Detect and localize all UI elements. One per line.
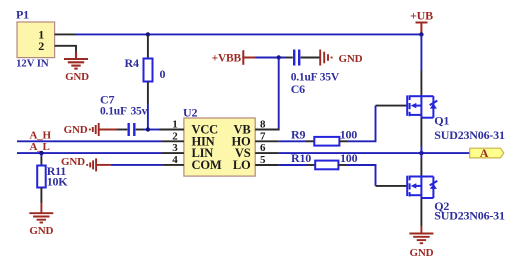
power port +VBB <box>243 50 255 65</box>
power port GND (right of C6) <box>320 50 331 66</box>
ground (below P1) <box>64 52 88 69</box>
wire Q1 source to output node <box>420 118 422 147</box>
svg-text:GND: GND <box>29 225 53 237</box>
svg-text:6: 6 <box>260 142 266 154</box>
node row1 <box>146 127 150 131</box>
svg-text:SUD23N06-31: SUD23N06-31 <box>434 128 505 142</box>
pin 4 <box>162 164 184 166</box>
capacitor C6 <box>286 57 293 59</box>
capacitor C7 <box>117 129 127 131</box>
svg-text:1: 1 <box>172 119 177 131</box>
transistor Q1 <box>407 95 433 118</box>
svg-text:10K: 10K <box>47 175 69 189</box>
wire Q2 source to ground <box>420 198 422 226</box>
svg-text:A_H: A_H <box>30 129 52 141</box>
svg-text:+UB: +UB <box>410 8 433 22</box>
connector P1 <box>16 8 55 70</box>
port A <box>470 148 504 158</box>
resistor R9 <box>279 140 306 142</box>
svg-text:GND: GND <box>64 124 88 136</box>
svg-text:12V IN: 12V IN <box>16 58 49 70</box>
svg-text:2: 2 <box>172 130 178 142</box>
power port GND (row1 left) <box>90 123 99 136</box>
node VBB/C6 <box>277 55 281 59</box>
svg-text:7: 7 <box>260 130 266 142</box>
pin 5 <box>255 164 279 166</box>
svg-text:100: 100 <box>340 151 358 165</box>
svg-text:A_L: A_L <box>30 141 50 153</box>
pin 1 <box>160 129 184 131</box>
svg-text:8: 8 <box>260 119 266 131</box>
pin 7 <box>255 140 279 142</box>
svg-text:R10: R10 <box>291 151 311 165</box>
svg-text:R4: R4 <box>125 56 139 70</box>
P1 pin 2 stub <box>55 46 76 52</box>
wire C7 to pin1 <box>144 129 160 131</box>
power port +UB <box>416 23 428 35</box>
svg-text:U2: U2 <box>183 105 197 119</box>
wire A_H <box>17 140 162 142</box>
svg-text:R9: R9 <box>291 127 305 141</box>
svg-text:C7: C7 <box>100 93 114 107</box>
svg-text:3: 3 <box>172 142 178 154</box>
power port GND (row4 left) <box>87 158 96 171</box>
svg-text:Q1: Q1 <box>434 114 449 128</box>
svg-text:A: A <box>480 146 489 160</box>
svg-text:P1: P1 <box>16 8 29 22</box>
svg-text:35v: 35v <box>131 106 148 118</box>
svg-text:5: 5 <box>260 154 266 166</box>
wire GND to C7 <box>99 129 117 131</box>
svg-text:2: 2 <box>38 39 44 53</box>
wire output node to Q2 drain <box>420 153 422 158</box>
node rail/R4 <box>146 32 150 36</box>
svg-text:0.1uF: 0.1uF <box>100 106 127 118</box>
svg-text:COM: COM <box>192 158 222 172</box>
node output junction <box>419 151 423 155</box>
svg-text:GND: GND <box>409 247 433 259</box>
wire VS row to output <box>279 152 470 154</box>
svg-text:SUD23N06-31: SUD23N06-31 <box>434 209 505 223</box>
wire R9 to Q1 gate <box>348 106 376 142</box>
P1 pin 1 stub <box>55 33 76 35</box>
wire +UB to Q1 drain <box>420 34 422 70</box>
svg-text:4: 4 <box>172 154 178 166</box>
pin 8 <box>255 129 279 131</box>
pin 2 <box>162 140 184 142</box>
svg-text:C6: C6 <box>291 82 305 96</box>
ground (below Q2) <box>409 226 433 243</box>
node +UB junction <box>419 32 423 36</box>
svg-text:+VBB: +VBB <box>212 53 242 65</box>
node A_L/R11 <box>39 151 43 155</box>
wire A_L <box>17 152 162 154</box>
svg-text:LO: LO <box>233 158 251 172</box>
svg-text:100: 100 <box>340 127 358 141</box>
resistor R10 <box>279 164 307 166</box>
ground (below R11) <box>29 203 53 223</box>
transistor Q2 <box>407 176 433 199</box>
wire main +UB rail <box>76 33 421 35</box>
pin 6 <box>255 152 279 154</box>
resistor R11 <box>40 153 42 157</box>
resistor R4 <box>147 35 149 59</box>
wire +VBB to C6 node <box>256 57 286 59</box>
IC U2 <box>183 105 255 176</box>
pin 3 <box>162 152 184 154</box>
svg-text:GND: GND <box>65 71 89 83</box>
wire VBB node down to U2 pin8 <box>255 58 279 130</box>
wire R4 to row1 <box>147 104 149 130</box>
svg-text:GND: GND <box>339 53 363 65</box>
svg-text:0: 0 <box>160 67 166 81</box>
wire R10 to Q2 gate <box>347 165 376 186</box>
wire GND to pin4 <box>96 164 111 166</box>
